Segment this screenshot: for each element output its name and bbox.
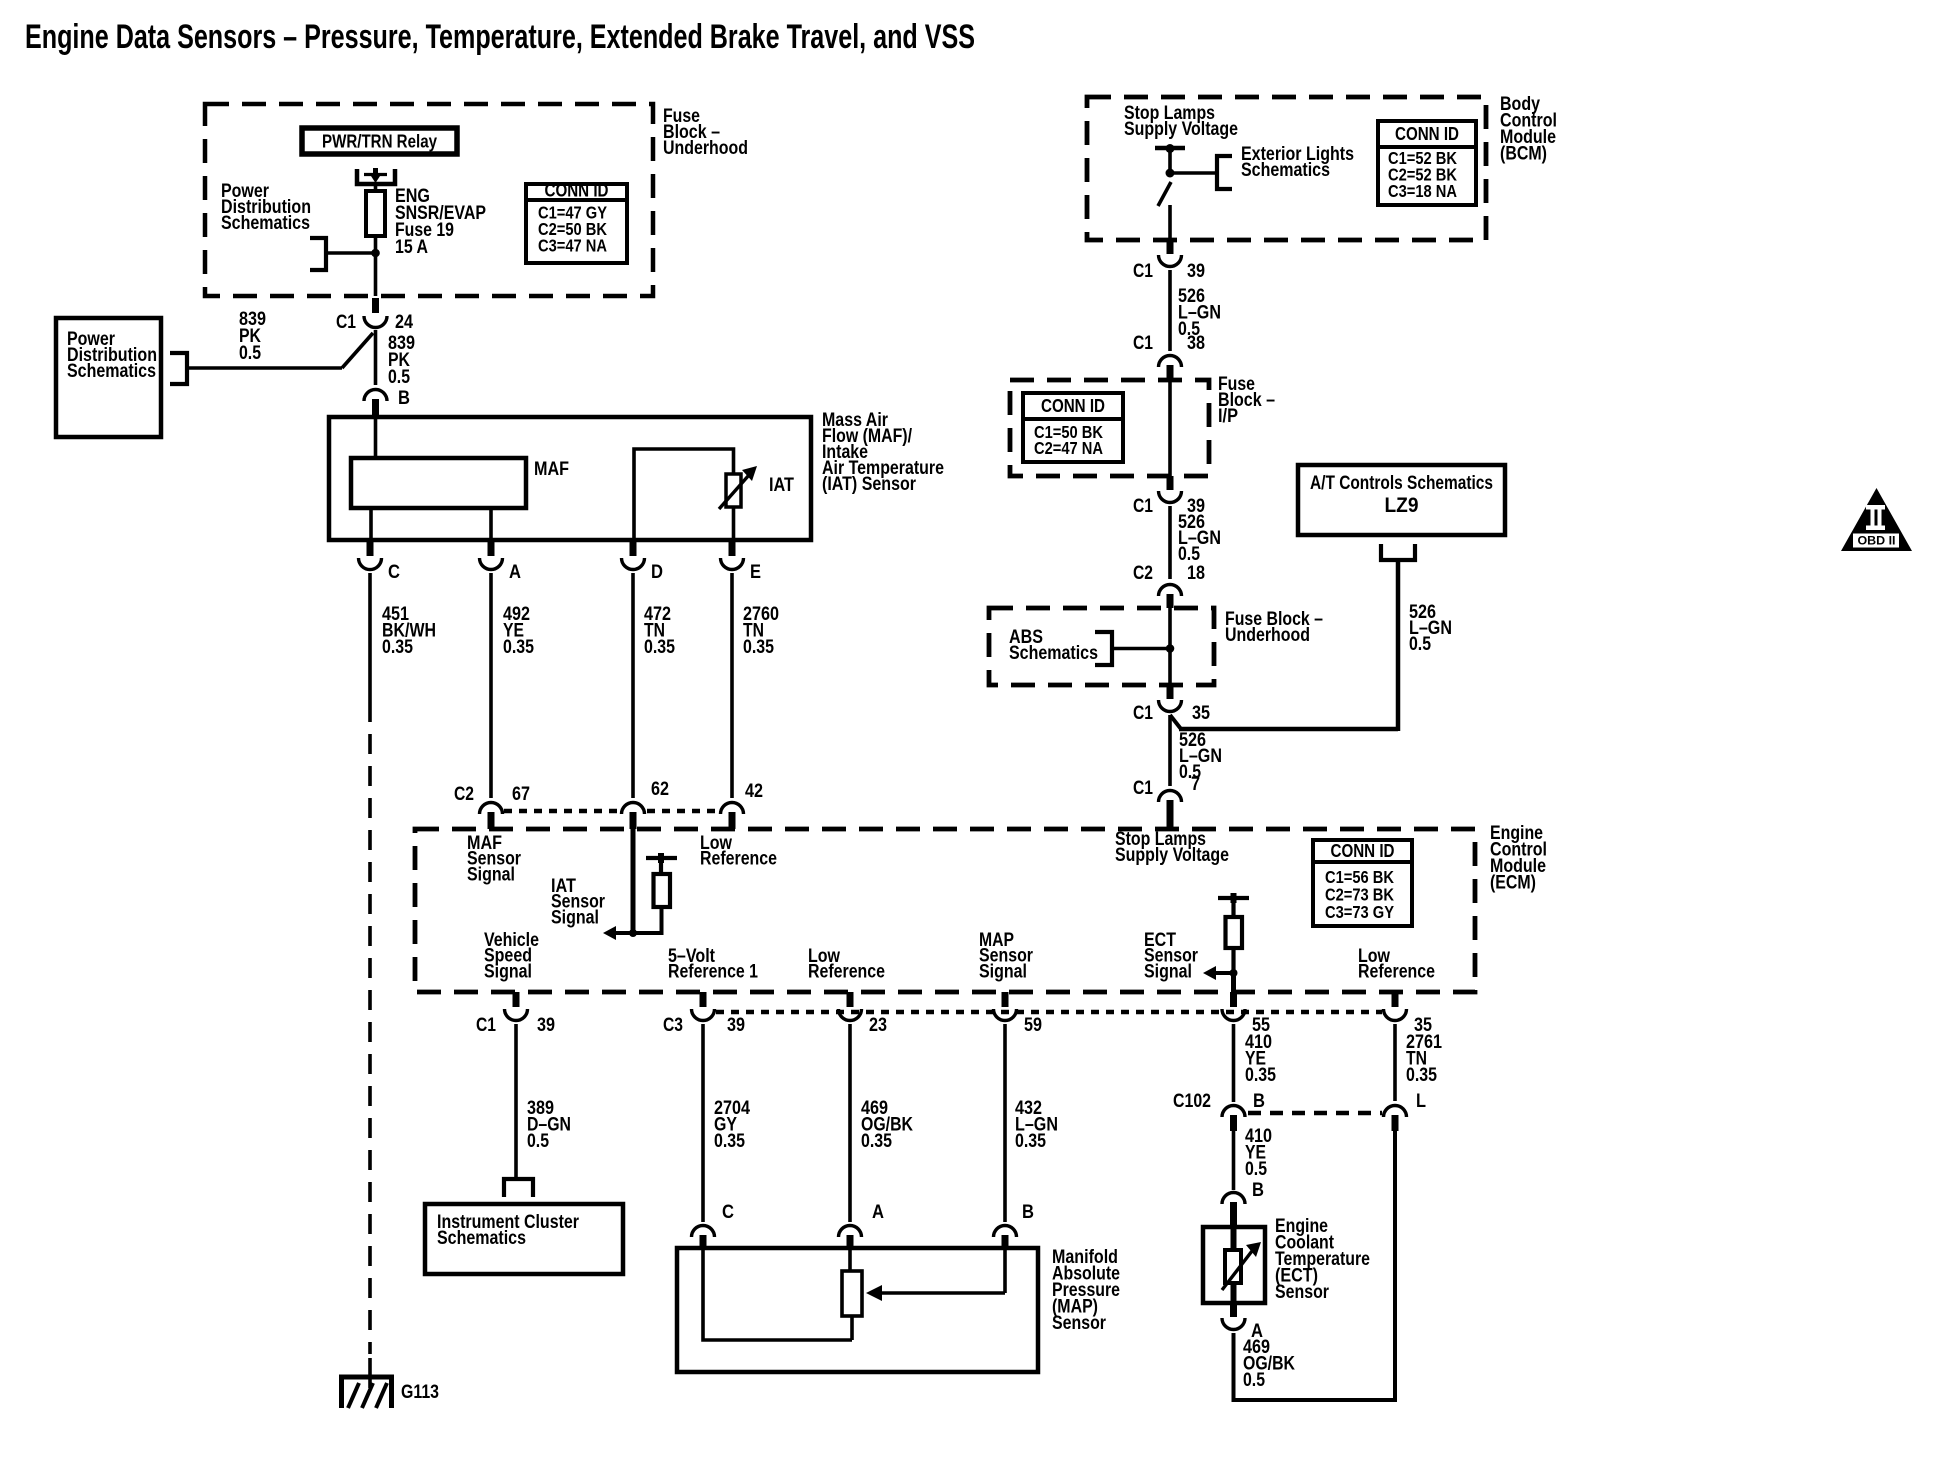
wire inside fuse block I/P (1168, 380, 1172, 476)
svg-text:0.5: 0.5 (1245, 1159, 1267, 1180)
connector pin 59 (ECM bottom) (1002, 992, 1009, 1007)
power distribution schematics box (56, 318, 161, 437)
wire splice C1-35 diagonal (1170, 715, 1181, 729)
off-page bracket power distribution (in fuse block) (310, 238, 326, 270)
svg-text:7: 7 (1191, 774, 1200, 795)
CONN ID table (BCM) (1378, 121, 1476, 205)
wire 526 L-GN from A/T (vertical) (1396, 560, 1401, 731)
MAF/IAT sensor box (329, 417, 811, 540)
svg-text:C1: C1 (1133, 333, 1153, 354)
wire ECT low reference loop (1234, 1131, 1396, 1400)
svg-text:G113: G113 (401, 1382, 439, 1403)
svg-text:C3=73 GY: C3=73 GY (1325, 902, 1394, 922)
svg-text:Signal: Signal (979, 961, 1027, 982)
wire to exterior lights bracket (1170, 171, 1215, 175)
svg-text:L: L (1416, 1091, 1426, 1112)
svg-text:CONN ID: CONN ID (1041, 396, 1105, 416)
svg-text:Supply Voltage: Supply Voltage (1115, 845, 1229, 866)
svg-text:0.35: 0.35 (644, 637, 675, 658)
connector C1 pin 35 (1167, 685, 1174, 699)
instrument cluster bracket (504, 1179, 533, 1197)
svg-text:C3=47 NA: C3=47 NA (538, 236, 607, 256)
connector pin 23 (ECM bottom) (847, 992, 854, 1007)
wire 410 YE 0.5 (1232, 1131, 1236, 1190)
connector B (ECT sensor) (1222, 1193, 1245, 1205)
wire 839 PK horizontal (187, 366, 342, 370)
connector A (ECT sensor) (1230, 1303, 1237, 1317)
svg-text:0.35: 0.35 (1015, 1131, 1046, 1152)
svg-text:(IAT) Sensor: (IAT) Sensor (822, 474, 917, 495)
ground G113 (368, 1358, 372, 1388)
connector E (MAF sensor) (729, 540, 736, 556)
connector C1 pin 24 (372, 298, 379, 313)
svg-text:0.5: 0.5 (1178, 544, 1200, 565)
svg-text:E: E (750, 562, 761, 583)
connector B (MAP sensor) (994, 1226, 1017, 1238)
svg-text:23: 23 (869, 1015, 887, 1036)
fuse block - underhood (dashed box) (205, 104, 653, 296)
ECM bottom connector dotted line (716, 1010, 1382, 1015)
CONN ID table (ECM) (1313, 840, 1412, 926)
connector B (MAF sensor) (364, 390, 387, 402)
svg-text:Reference: Reference (700, 849, 777, 870)
node fuse junction (371, 249, 380, 258)
CONN ID table (fuse block I/P) (1023, 393, 1123, 462)
MAF element box (351, 458, 526, 508)
wire ECT sensor signal inside ECM (1231, 973, 1236, 992)
svg-text:B: B (1253, 1091, 1265, 1112)
svg-text:C1: C1 (1133, 261, 1153, 282)
wire 432 L-GN (1003, 1024, 1007, 1222)
svg-text:C2: C2 (1133, 563, 1153, 584)
svg-text:B: B (1022, 1202, 1034, 1223)
connector pin L (C102) (1384, 1106, 1407, 1118)
svg-text:0.35: 0.35 (714, 1131, 745, 1152)
connector C (MAF sensor) (367, 540, 374, 556)
svg-text:A/T Controls Schematics: A/T Controls Schematics (1310, 473, 1493, 494)
wire 2760 TN (730, 573, 734, 798)
svg-text:Reference 1: Reference 1 (668, 962, 758, 983)
off-page bracket power distribution (left) (170, 353, 187, 384)
connector C102 pin B (1222, 1106, 1245, 1118)
svg-text:C1: C1 (476, 1015, 496, 1036)
svg-text:0.35: 0.35 (382, 637, 413, 658)
svg-text:Supply Voltage: Supply Voltage (1124, 119, 1238, 140)
wire relay to fuse (374, 183, 378, 191)
svg-text:15 A: 15 A (395, 237, 428, 258)
wire 389 D-GN (514, 1024, 518, 1179)
ECT variable arrow (1222, 1251, 1252, 1290)
svg-text:C1: C1 (1133, 496, 1153, 517)
svg-text:0.5: 0.5 (388, 367, 410, 388)
OBD II symbol (1841, 488, 1912, 551)
wire 472 TN (631, 573, 635, 798)
svg-text:C1: C1 (1133, 703, 1153, 724)
connector pin 55 (ECM bottom) (1230, 992, 1237, 1007)
svg-text:PWR/TRN Relay: PWR/TRN Relay (322, 132, 437, 152)
svg-text:0.35: 0.35 (861, 1131, 892, 1152)
svg-text:C: C (722, 1202, 734, 1223)
svg-text:0.35: 0.35 (743, 637, 774, 658)
wire fuse to junction (374, 236, 378, 296)
svg-text:(BCM): (BCM) (1500, 144, 1547, 165)
svg-text:CONN ID: CONN ID (545, 181, 609, 201)
svg-text:Signal: Signal (467, 864, 515, 885)
switch blade (1158, 182, 1171, 206)
wire 526 L-GN (I/P to underhood) (1168, 506, 1172, 579)
wire MAP 5V inside (703, 1248, 852, 1340)
fuse block I/P (dashed box) (1010, 380, 1209, 476)
wire 839 diagonal splice (342, 333, 373, 368)
svg-text:Signal: Signal (1144, 961, 1192, 982)
svg-text:59: 59 (1024, 1015, 1042, 1036)
svg-text:0.5: 0.5 (239, 343, 261, 364)
IAT variable arrow (719, 475, 749, 509)
C102 dashed connector line (1248, 1111, 1382, 1116)
wire junction to left bracket (326, 251, 376, 255)
svg-text:C: C (388, 562, 400, 583)
node ABS junction (1166, 644, 1175, 653)
svg-text:0.5: 0.5 (1243, 1370, 1265, 1391)
svg-text:Schematics: Schematics (221, 213, 310, 234)
wire IAT sensor signal inside ECM (631, 829, 636, 933)
svg-text:C2: C2 (454, 784, 474, 805)
svg-text:18: 18 (1187, 563, 1205, 584)
engine control module ECM (dashed box) (415, 829, 1475, 992)
svg-text:0.35: 0.35 (1245, 1065, 1276, 1086)
engine coolant temperature ECT sensor box (1203, 1227, 1265, 1303)
svg-text:I/P: I/P (1218, 406, 1238, 427)
connector A (MAP sensor) (839, 1226, 862, 1238)
svg-text:39: 39 (1187, 261, 1205, 282)
wire MAF element lead C (369, 508, 373, 540)
wire 492 YE (489, 573, 493, 798)
svg-text:B: B (1252, 1180, 1264, 1201)
svg-text:39: 39 (727, 1015, 745, 1036)
wire 2761 TN (1393, 1024, 1397, 1101)
svg-text:C3=18 NA: C3=18 NA (1388, 181, 1457, 201)
svg-text:Schematics: Schematics (437, 1228, 526, 1249)
svg-text:0.5: 0.5 (527, 1131, 549, 1152)
node IAT signal junction (629, 929, 637, 937)
wire 451 BK/WH to ground (dashed) (368, 573, 372, 702)
svg-text:0.35: 0.35 (503, 637, 534, 658)
fuse ENG SNSR/EVAP Fuse 19 15 A (366, 191, 385, 236)
svg-text:C3: C3 (663, 1015, 683, 1036)
svg-text:MAF: MAF (534, 459, 569, 480)
svg-text:LZ9: LZ9 (1385, 494, 1419, 517)
svg-text:A: A (872, 1202, 884, 1223)
svg-text:38: 38 (1187, 333, 1205, 354)
svg-text:Schematics: Schematics (1241, 160, 1330, 181)
thermistor IAT (726, 474, 741, 507)
svg-text:CONN ID: CONN ID (1331, 841, 1395, 861)
wire MAP low ref inside (848, 1248, 852, 1271)
body control module BCM (dashed box) (1087, 97, 1486, 240)
svg-text:Signal: Signal (484, 961, 532, 982)
connector C (MAP sensor) (692, 1226, 715, 1238)
svg-text:Sensor: Sensor (1052, 1313, 1107, 1334)
svg-text:CONN ID: CONN ID (1395, 124, 1459, 144)
off-page bracket ABS schematics (1095, 632, 1112, 665)
wire MAF element lead A (489, 508, 493, 540)
instrument cluster schematics box (425, 1204, 623, 1274)
CONN ID table (fuse block underhood) (526, 184, 627, 263)
IAT pull-up resistor (ECM) (658, 853, 664, 863)
svg-text:IAT: IAT (769, 475, 794, 496)
svg-text:Engine Data Sensors – Pressure: Engine Data Sensors – Pressure, Temperat… (25, 18, 975, 56)
svg-text:OBD II: OBD II (1858, 534, 1896, 548)
wire 526 L-GN down to C1 7 (1168, 715, 1172, 786)
connector C1 pin 38 (fuse block I/P) (1159, 356, 1182, 368)
svg-text:62: 62 (651, 779, 669, 800)
wire B into MAF element (374, 417, 378, 458)
connector D (MAF sensor) (630, 540, 637, 556)
svg-text:B: B (398, 388, 410, 409)
wire inside fuse block underhood (1168, 608, 1172, 685)
svg-text:Reference: Reference (808, 962, 885, 983)
node ECT signal junction (1230, 969, 1238, 977)
wire 526 L-GN from A/T controls (horizontal) (1179, 727, 1398, 732)
svg-text:Reference: Reference (1358, 962, 1435, 983)
svg-text:C2=47 NA: C2=47 NA (1034, 438, 1103, 458)
fuse block underhood mid (dashed box) (989, 608, 1214, 685)
A/T controls bracket (1381, 544, 1415, 560)
connector C1 pin 39 (I/P out) (1167, 476, 1174, 490)
relay PWR/TRN contact symbol (357, 169, 395, 184)
connector C2 pin 67 (ECM) (480, 803, 503, 815)
wire 469 OG/BK (MAP low ref) (848, 1024, 852, 1222)
svg-text:39: 39 (537, 1015, 555, 1036)
svg-text:C1: C1 (1133, 778, 1153, 799)
svg-text:C102: C102 (1173, 1091, 1211, 1112)
svg-text:C1: C1 (336, 312, 356, 333)
wire 2704 GY (701, 1024, 705, 1222)
connector pin 35 (ECM bottom) (1392, 992, 1399, 1007)
connector pin 62 (ECM) (622, 803, 645, 815)
ECT signal arrow (1215, 971, 1234, 975)
A/T controls schematics box (1298, 465, 1505, 535)
connector pin 39 (ECM bottom) (700, 992, 707, 1007)
svg-text:D: D (651, 562, 663, 583)
svg-text:Schematics: Schematics (1009, 643, 1098, 664)
svg-text:24: 24 (395, 312, 413, 333)
ECT pull-up resistor (ECM) (1231, 893, 1237, 903)
connector pin 42 (ECM) (721, 803, 744, 815)
wire IAT loop (634, 449, 734, 540)
wire ABS to junction (1112, 647, 1170, 651)
relay PWR/TRN box (302, 128, 457, 154)
svg-text:Schematics: Schematics (67, 361, 156, 382)
connector C1 pin 39 (BCM) (1167, 240, 1174, 254)
wire 410 YE 0.35 (1232, 1024, 1236, 1102)
svg-text:(ECM): (ECM) (1490, 873, 1536, 894)
svg-text:A: A (509, 562, 521, 583)
wire switch to BCM edge (1168, 205, 1172, 240)
wire 526 L-GN (BCM to I/P) (1168, 270, 1172, 351)
IAT signal arrow (615, 931, 633, 935)
manifold absolute pressure MAP sensor box (677, 1248, 1038, 1372)
wire MAP signal wiper arrow (1003, 1248, 1007, 1293)
svg-text:67: 67 (512, 784, 530, 805)
MAP potentiometer resistor (842, 1271, 862, 1316)
stop lamp switch (BCM) (1155, 146, 1185, 151)
connector pin 39 (ECM bottom) (513, 992, 520, 1007)
thermistor ECT (1231, 1227, 1237, 1250)
ECM connector row dotted line (504, 809, 619, 814)
svg-text:0.35: 0.35 (1406, 1065, 1437, 1086)
svg-text:Sensor: Sensor (1275, 1282, 1330, 1303)
svg-text:42: 42 (745, 781, 763, 802)
svg-text:Underhood: Underhood (1225, 625, 1310, 646)
wire 839 PK to MAF (374, 330, 378, 385)
svg-text:Signal: Signal (551, 907, 599, 928)
connector A (MAF sensor) (488, 540, 495, 556)
svg-text:0.5: 0.5 (1409, 634, 1431, 655)
svg-text:35: 35 (1192, 703, 1210, 724)
svg-text:Underhood: Underhood (663, 138, 748, 159)
off-page bracket exterior lights (1217, 156, 1232, 189)
